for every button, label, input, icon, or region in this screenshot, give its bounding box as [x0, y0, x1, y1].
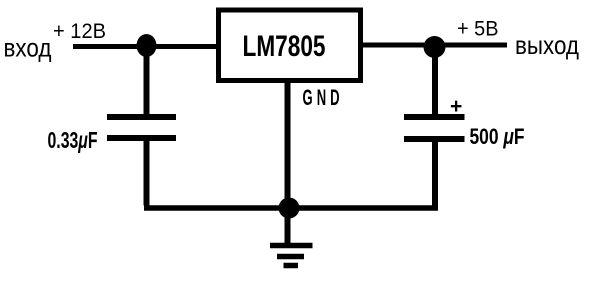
svg-text:выход: выход [515, 30, 579, 60]
capacitor C1 0.33uF [107, 117, 176, 138]
wire output from U1 to output node [361, 43, 507, 48]
wire from C2 down to ground rail [432, 139, 438, 206]
node B output junction [424, 36, 446, 58]
wire ground stem [285, 208, 291, 245]
node C ground junction [279, 198, 300, 219]
wire from input node down to C1 [144, 47, 150, 115]
capacitor C2 500uF [404, 117, 465, 139]
ground symbol [270, 246, 313, 266]
node A input junction [137, 34, 157, 57]
wire from output node down to C2 [432, 47, 438, 115]
svg-text:GND: GND [303, 84, 344, 110]
wire bottom ground rail [144, 205, 438, 211]
svg-text:0.33μF: 0.33μF [48, 127, 98, 153]
wire from C1 down to ground rail [144, 138, 150, 206]
svg-text:LM7805: LM7805 [243, 30, 326, 63]
wire input horizontal [73, 44, 218, 49]
regulator U1 LM7805 [219, 10, 361, 81]
svg-text:вход: вход [4, 33, 52, 63]
svg-text:+ 5В: + 5В [457, 17, 499, 41]
svg-text:+ 12В: + 12В [53, 19, 106, 43]
pin GND of U1 down to ground rail [285, 80, 291, 205]
svg-text:500 μF: 500 μF [470, 124, 525, 149]
